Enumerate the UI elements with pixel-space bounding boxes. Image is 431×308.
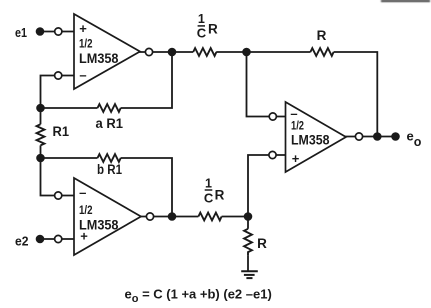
wire lower rail node to b R1	[41, 157, 98, 159]
pin circle U3 output	[355, 133, 362, 140]
svg-text:1: 1	[198, 12, 205, 26]
junction node C	[168, 212, 177, 221]
resistor R (to ground)	[244, 229, 252, 255]
svg-text:+: +	[292, 151, 300, 166]
wire node B down to U3 - input	[247, 52, 286, 117]
pin circle U1 - input	[55, 72, 62, 79]
svg-text:R: R	[208, 22, 218, 37]
svg-text:b R1: b R1	[97, 162, 122, 177]
svg-text:e2: e2	[15, 234, 29, 249]
svg-text:C: C	[204, 191, 214, 206]
wire R1 bottom lead to lower rail node	[40, 145, 42, 158]
op-amp U1 (1/2 LM358, top)	[74, 14, 140, 89]
resistor b R1	[98, 154, 121, 162]
pin circle U2 - input	[55, 192, 62, 199]
terminal e1 dot	[36, 27, 45, 36]
svg-text:e1: e1	[15, 25, 27, 40]
svg-text:1: 1	[205, 176, 212, 190]
pin circle U3 - input	[269, 113, 276, 120]
wire 1/C R (bottom) to node D	[222, 216, 248, 218]
wire node D down to resistor R lead	[247, 217, 249, 229]
pin circle U3 + input	[269, 151, 276, 158]
svg-text:eo = C (1 +a +b) (e2 –e1): eo = C (1 +a +b) (e2 –e1)	[125, 287, 272, 306]
svg-text:R1: R1	[53, 124, 70, 139]
wire R bottom lead to ground	[247, 255, 249, 271]
op-amp U3 (1/2 LM358, right)	[286, 102, 347, 172]
junction node A	[168, 48, 177, 57]
wire e2 lead to U2 + input	[40, 238, 74, 240]
svg-text:a R1: a R1	[96, 116, 124, 131]
wire a R1 to left rail node	[41, 107, 98, 109]
pin circle U2 output	[146, 213, 153, 220]
terminal e2 dot	[36, 235, 45, 244]
wire node C to 1/C R (bottom)	[172, 216, 198, 218]
svg-text:1/2: 1/2	[291, 119, 304, 133]
wire left rail node through R1 leads	[40, 108, 42, 124]
junction node (left rail lower)	[36, 154, 45, 163]
junction node D	[244, 212, 253, 221]
wire e1 lead to U1 + input	[40, 31, 74, 33]
wire 1/C R to node B	[216, 51, 247, 53]
svg-text:R: R	[215, 188, 225, 203]
svg-text:R: R	[257, 236, 267, 251]
svg-text:C: C	[197, 26, 207, 41]
pin circle U1 output	[145, 48, 152, 55]
svg-text:1/2: 1/2	[79, 37, 93, 51]
svg-text:+: +	[80, 229, 88, 244]
svg-text:eo: eo	[407, 129, 422, 149]
resistor R1 (vertical)	[37, 124, 45, 145]
label 1/C R (top)	[197, 12, 218, 41]
svg-text:+: +	[79, 21, 87, 36]
wire U2 output to node C	[140, 216, 173, 218]
wire lower rail node down to U2 - input	[41, 158, 75, 196]
label 1/C R (bottom)	[204, 176, 225, 205]
pin circle U1 + input	[55, 28, 62, 35]
wire U3 output to e_o terminal	[345, 136, 396, 138]
ground	[241, 271, 258, 278]
svg-text:–: –	[79, 185, 86, 200]
svg-text:R: R	[317, 28, 327, 43]
resistor 1/C R (top)	[193, 48, 216, 56]
wire node B to resistor R (top right)	[247, 51, 311, 53]
wire R (top right) to corner down to U3 output node	[334, 52, 378, 137]
op-amp U2 (1/2 LM358, bottom)	[74, 178, 141, 255]
junction node B	[242, 48, 251, 57]
wire node A down to a R1 branch	[121, 52, 172, 108]
svg-text:LM358: LM358	[291, 132, 330, 148]
wire U1 - input feedback to node at left rail	[41, 76, 75, 109]
junction node at U3 output	[373, 132, 382, 141]
svg-text:1/2: 1/2	[79, 203, 93, 217]
resistor R (top right)	[310, 48, 333, 56]
resistor a R1	[98, 104, 121, 112]
wire b R1 to corner down to node C	[121, 158, 172, 217]
wire U1 output to node A	[139, 51, 173, 53]
svg-text:LM358: LM358	[79, 50, 119, 66]
scan artifact bar top right (decorative)	[381, 0, 431, 2]
wire node D up to U3 + input	[248, 155, 286, 217]
junction node (left rail upper)	[36, 104, 45, 113]
terminal e_o dot	[391, 132, 400, 141]
resistor 1/C R (bottom)	[198, 213, 221, 221]
svg-text:–: –	[79, 67, 86, 82]
pin circle U2 + input	[55, 235, 62, 242]
wire node A to 1/C R (top)	[172, 51, 193, 53]
